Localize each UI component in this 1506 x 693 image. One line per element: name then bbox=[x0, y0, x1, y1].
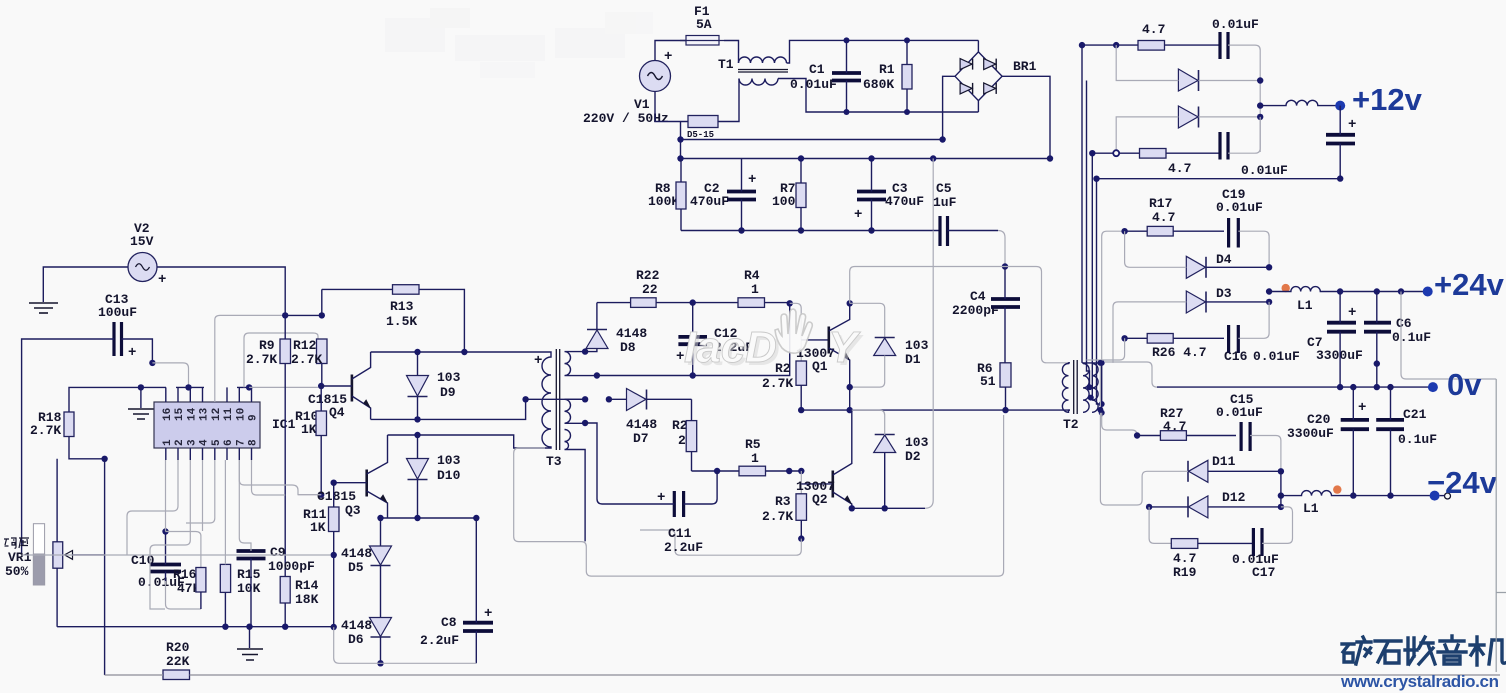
R27 rail riser bbox=[1102, 413, 1137, 436]
svg-text:6: 6 bbox=[223, 439, 235, 446]
svg-text:T2: T2 bbox=[1063, 417, 1079, 432]
svg-text:Q2: Q2 bbox=[812, 492, 828, 507]
svg-text:50%: 50% bbox=[5, 564, 29, 579]
resistor R4 bbox=[738, 268, 765, 307]
svg-text:0.01uF: 0.01uF bbox=[1253, 349, 1300, 364]
capacitor C16 bbox=[1224, 302, 1300, 364]
svg-text:14: 14 bbox=[186, 407, 198, 421]
svg-text:100K: 100K bbox=[648, 194, 679, 209]
junction C13 node bbox=[149, 360, 155, 366]
svg-text:22: 22 bbox=[642, 282, 658, 297]
svg-text:1: 1 bbox=[162, 439, 174, 446]
junction pin14 bbox=[185, 384, 191, 390]
capacitor C8 bbox=[420, 518, 493, 663]
ground row above IC bbox=[95, 386, 166, 388]
primary return row y410 bbox=[801, 409, 1005, 411]
ground (V2) bbox=[29, 303, 58, 313]
capacitor C2 bbox=[690, 159, 756, 234]
svg-text:R17: R17 bbox=[1149, 196, 1172, 211]
junction inductor node bbox=[1257, 102, 1263, 108]
resistor R6 bbox=[977, 361, 1011, 410]
svg-text:R12: R12 bbox=[293, 338, 317, 353]
+12 return rail bbox=[1097, 178, 1341, 180]
svg-text:103: 103 bbox=[437, 370, 461, 385]
junction Q1 collector bbox=[847, 300, 853, 306]
svg-text:13: 13 bbox=[199, 407, 211, 421]
svg-text:D3: D3 bbox=[1216, 286, 1232, 301]
junction R1 top bbox=[904, 37, 910, 43]
resistor R11 bbox=[303, 483, 339, 627]
pot slider graphic bbox=[33, 524, 44, 585]
gray wire pins9-10 to Q4 base node bbox=[249, 386, 321, 387]
resistor R22 bbox=[631, 268, 660, 307]
junction C11 riser bbox=[714, 468, 720, 474]
junction +24 rail bbox=[1398, 288, 1404, 294]
junction C12 top bbox=[690, 299, 696, 305]
svg-text:C17: C17 bbox=[1252, 565, 1275, 580]
wire V2 right to R9/R12 rail bbox=[157, 267, 285, 315]
capacitor C1 bbox=[790, 40, 861, 112]
gray pin web drops bbox=[165, 460, 167, 532]
svg-text:1: 1 bbox=[751, 282, 759, 297]
inductor (+12) bbox=[1260, 100, 1340, 105]
resistor R16 bbox=[173, 567, 206, 609]
Q4 collector row bbox=[371, 351, 545, 353]
junction R9 top bbox=[282, 312, 288, 318]
resistor R3 bbox=[762, 494, 807, 539]
orange node bbox=[1282, 284, 1290, 292]
svg-text:C8: C8 bbox=[441, 615, 457, 630]
svg-text:L1: L1 bbox=[1297, 298, 1313, 313]
gray wire C10 node to R16 bbox=[166, 532, 201, 568]
junction R1 bottom bbox=[904, 109, 910, 115]
top rail bbox=[1082, 44, 1220, 46]
svg-text:4148: 4148 bbox=[616, 326, 647, 341]
junction Q1/Q2 row bbox=[847, 407, 853, 413]
gray wire C13 node to pin14 bbox=[152, 363, 188, 388]
capacitor C5 bbox=[933, 181, 1005, 267]
resistor R13 bbox=[322, 285, 465, 352]
pot VR1 bbox=[4, 459, 105, 627]
junction return rail left bbox=[1093, 176, 1099, 182]
svg-text:9: 9 bbox=[248, 414, 260, 421]
frame corner lines bbox=[1496, 379, 1506, 672]
glyph shi bbox=[1375, 641, 1401, 663]
junction return rail right bbox=[1337, 175, 1343, 181]
svg-text:103: 103 bbox=[905, 435, 929, 450]
svg-text:C21: C21 bbox=[1403, 407, 1427, 422]
capacitor C19 bbox=[1229, 218, 1270, 267]
junction R14 bottom bbox=[282, 624, 288, 630]
junction R15 bottom bbox=[222, 624, 228, 630]
junction D10 top bbox=[414, 432, 420, 438]
capacitor C7 bbox=[1307, 292, 1363, 388]
junction R26 left bbox=[1121, 335, 1127, 341]
svg-text:C6: C6 bbox=[1396, 316, 1412, 331]
wire Q2 base bbox=[801, 483, 833, 485]
svg-text:4: 4 bbox=[199, 439, 211, 446]
svg-text:D8: D8 bbox=[620, 340, 636, 355]
svg-text:0v: 0v bbox=[1447, 367, 1482, 402]
svg-text:1K: 1K bbox=[310, 520, 326, 535]
resistor R15 bbox=[220, 460, 260, 627]
transistor Q3 bbox=[317, 435, 388, 518]
svg-text:220V / 50Hz: 220V / 50Hz bbox=[583, 111, 669, 126]
junction D10 bottom bbox=[414, 515, 420, 521]
junction T3 mid tap bbox=[522, 396, 528, 402]
svg-text:Q4: Q4 bbox=[329, 405, 345, 420]
gray pin3 drop bbox=[150, 460, 190, 609]
svg-text:0.01uF: 0.01uF bbox=[1212, 17, 1259, 32]
wire C13 right to pins 13-15 node bbox=[122, 339, 153, 363]
junction R11 col y555 bbox=[331, 552, 337, 558]
junction top rail bbox=[1079, 42, 1085, 48]
junction C6 mid bbox=[1374, 360, 1380, 366]
junction bottom rail bbox=[1089, 150, 1095, 156]
negative row under filters bbox=[681, 230, 940, 232]
junction R3 bottom bbox=[798, 535, 804, 541]
svg-text:2.7K: 2.7K bbox=[762, 509, 793, 524]
svg-text:D12: D12 bbox=[1222, 490, 1246, 505]
junction R13 drop bbox=[461, 349, 467, 355]
svg-text:R20: R20 bbox=[166, 640, 190, 655]
capacitor C3 bbox=[854, 155, 924, 233]
junction ground row bbox=[138, 384, 144, 390]
varistor D5-15 bbox=[687, 116, 718, 141]
output cap (+12) bbox=[1326, 106, 1356, 179]
svg-text:R14: R14 bbox=[295, 578, 319, 593]
wire left drop to R20 rail bbox=[104, 459, 106, 675]
vertical bus x1086.5 bbox=[1087, 81, 1090, 388]
fuse F1 bbox=[680, 4, 724, 45]
junction D6 bottom bbox=[377, 660, 383, 666]
capacitor C15 bbox=[1241, 422, 1281, 471]
resistor R5 bbox=[739, 437, 766, 476]
svg-text:0.01uF: 0.01uF bbox=[1216, 200, 1263, 215]
svg-text:18K: 18K bbox=[295, 592, 319, 607]
capacitor C21 bbox=[1376, 387, 1437, 496]
capacitor C13 bbox=[98, 292, 137, 361]
resistor 4.7 bottom bbox=[1140, 149, 1192, 177]
svg-text:+: + bbox=[1358, 400, 1366, 416]
svg-text:5A: 5A bbox=[696, 17, 712, 32]
junction pins 9-10 bbox=[246, 384, 252, 390]
svg-text:11: 11 bbox=[223, 407, 235, 421]
R22 rail top bbox=[597, 302, 790, 304]
Q4 emitter row bbox=[371, 399, 526, 419]
junction D9 bottom bbox=[414, 416, 420, 422]
0v rail left riser bbox=[1105, 362, 1157, 387]
svg-text:D4: D4 bbox=[1216, 252, 1232, 267]
junction tap b bbox=[1088, 395, 1094, 401]
svg-text:−24v: −24v bbox=[1427, 465, 1498, 500]
wire T1 bottom coil to bottom rail bbox=[778, 79, 978, 113]
svg-text:R26 4.7: R26 4.7 bbox=[1152, 345, 1207, 360]
rail B bbox=[681, 158, 1051, 160]
wire fuse to T1 bbox=[724, 41, 739, 64]
svg-text:+: + bbox=[534, 353, 542, 369]
junction tap c bbox=[1099, 401, 1105, 407]
resistor R10 bbox=[295, 386, 327, 495]
svg-text:2.7K: 2.7K bbox=[30, 423, 61, 438]
svg-text:+24v: +24v bbox=[1434, 267, 1505, 302]
inductor L1 (+24) bbox=[1269, 287, 1340, 313]
svg-text:IacD: IacD bbox=[684, 323, 777, 372]
ground (bottom) bbox=[237, 627, 263, 660]
svg-text:D9: D9 bbox=[440, 385, 456, 400]
gray enclosure path T3 bottom loop bbox=[514, 415, 1004, 576]
svg-text:2.2uF: 2.2uF bbox=[664, 540, 703, 555]
svg-text:1: 1 bbox=[751, 451, 759, 466]
svg-text:4148: 4148 bbox=[341, 546, 372, 561]
resistor R12 bbox=[291, 289, 327, 386]
resistor R18 bbox=[30, 387, 105, 458]
gray pin2 drop bbox=[127, 460, 178, 555]
wire D11/D12 node vertical bbox=[1280, 471, 1282, 507]
diode D6 bbox=[341, 618, 392, 664]
junction C1 top bbox=[844, 37, 850, 43]
svg-text:+: + bbox=[1348, 305, 1356, 321]
junction rail A right bbox=[939, 136, 945, 142]
gray wire pin10 riser to R12 top bbox=[244, 333, 318, 387]
diode D12 bbox=[1149, 490, 1281, 518]
voltage source V1 bbox=[583, 49, 672, 126]
junction R4 right bbox=[787, 300, 793, 306]
junction diode upper out bbox=[1257, 77, 1263, 83]
inductor L1 (-24) bbox=[1281, 491, 1353, 516]
svg-text:IC1: IC1 bbox=[272, 417, 296, 432]
wire tap top bbox=[1082, 363, 1102, 417]
svg-text:3300uF: 3300uF bbox=[1287, 426, 1334, 441]
wire C13 left to left rail bbox=[22, 339, 114, 555]
svg-text:R19: R19 bbox=[1173, 565, 1197, 580]
junction rail A left bbox=[677, 136, 683, 142]
bottom right logo 矿石收音机 bbox=[1342, 636, 1505, 665]
svg-text:L1: L1 bbox=[1303, 501, 1319, 516]
diode D10 bbox=[407, 435, 461, 518]
junction L1b in bbox=[1278, 492, 1284, 498]
Q3 emitter row bbox=[380, 517, 476, 519]
pin 12 gray riser to R9 rail bbox=[215, 315, 285, 402]
svg-text:51: 51 bbox=[980, 374, 996, 389]
capacitor C11 bbox=[585, 423, 717, 555]
svg-text:8: 8 bbox=[248, 439, 260, 446]
svg-text:4.7: 4.7 bbox=[1152, 210, 1175, 225]
svg-text:+: + bbox=[1348, 117, 1356, 133]
diode D9 bbox=[407, 352, 461, 419]
junction R5 right dots bbox=[786, 468, 792, 474]
svg-text:100uF: 100uF bbox=[98, 305, 137, 320]
resistor R14 bbox=[280, 577, 318, 627]
wire rail B down to C5 row bbox=[932, 159, 934, 231]
R9/R12 top rail bbox=[285, 314, 322, 316]
svg-text:1000pF: 1000pF bbox=[268, 559, 315, 574]
svg-text:470uF: 470uF bbox=[885, 194, 924, 209]
gray wire collector to V+ node bbox=[850, 267, 1005, 304]
junction C8 riser bbox=[473, 515, 479, 521]
wire D5-15 to T1 bottom coil bbox=[718, 79, 739, 122]
svg-text:D1: D1 bbox=[905, 352, 921, 367]
resistor R8 bbox=[648, 159, 686, 231]
junction C6 top bbox=[1374, 288, 1380, 294]
capacitor C4 bbox=[952, 267, 1020, 363]
glyph kuang bbox=[1342, 637, 1371, 664]
svg-text:R16: R16 bbox=[173, 567, 197, 582]
svg-text:22K: 22K bbox=[166, 654, 190, 669]
diode D2 bbox=[852, 410, 929, 508]
resistor R20 bbox=[163, 640, 190, 680]
bridge rectifier BR1 bbox=[955, 52, 1037, 101]
svg-text:+: + bbox=[484, 606, 492, 622]
junction Q3 base bbox=[331, 480, 337, 486]
vertical bus x1082 bbox=[1081, 45, 1083, 363]
svg-text:680K: 680K bbox=[863, 77, 894, 92]
gray wire +24 to frame bbox=[1401, 292, 1496, 380]
svg-text:D11: D11 bbox=[1212, 454, 1236, 469]
bottom gray link row C8 bbox=[334, 627, 477, 663]
pin 16 stub bbox=[165, 387, 167, 402]
wire V1 bottom to D5-15 bbox=[655, 92, 688, 122]
pins 10-9 tie bbox=[237, 387, 253, 402]
IC op IC1 body bbox=[154, 402, 296, 448]
resistor R9 bbox=[246, 315, 291, 576]
R17 rail bbox=[1102, 231, 1125, 363]
svg-text:470uF: 470uF bbox=[690, 194, 729, 209]
-24 output rail bbox=[1353, 495, 1434, 497]
svg-text:0.01uF: 0.01uF bbox=[1241, 163, 1288, 178]
wire R26 left riser bbox=[1087, 338, 1125, 360]
junction Q2 emitter row bbox=[849, 505, 855, 511]
wire V1 top to fuse bbox=[655, 41, 686, 61]
T3 mid tap wire bbox=[526, 398, 586, 400]
svg-text:R22: R22 bbox=[636, 268, 660, 283]
capacitor C9 bbox=[237, 460, 316, 627]
resistor R19 bbox=[1171, 539, 1253, 580]
wire Q3 emitter down to D5 bbox=[380, 518, 382, 546]
resistor R7 bbox=[772, 155, 806, 233]
svg-text:R1: R1 bbox=[879, 62, 895, 77]
svg-text:4148: 4148 bbox=[626, 417, 657, 432]
svg-text:+: + bbox=[664, 49, 672, 65]
svg-text:2.7K: 2.7K bbox=[291, 352, 322, 367]
capacitor C17 bbox=[1232, 507, 1293, 580]
T2 secondary bbox=[1083, 364, 1098, 413]
svg-text:Q3: Q3 bbox=[345, 503, 361, 518]
svg-text:16: 16 bbox=[162, 408, 174, 421]
diode upper (+12) bbox=[1116, 45, 1260, 91]
svg-text:V1: V1 bbox=[634, 97, 650, 112]
wire Q1 base bbox=[801, 339, 829, 341]
gray pin7 drop bbox=[252, 460, 286, 495]
junction R11 col rail bbox=[331, 624, 337, 630]
diode D5 bbox=[341, 546, 392, 618]
svg-text:D6: D6 bbox=[348, 632, 364, 647]
junction C20 bottom bbox=[1350, 492, 1356, 498]
junction R17 left bbox=[1121, 228, 1127, 234]
junction -24 bus bbox=[1097, 360, 1103, 366]
wire bridge right vertex to rail B bbox=[1002, 76, 1050, 158]
svg-text:1uF: 1uF bbox=[933, 195, 957, 210]
svg-text:2.7K: 2.7K bbox=[762, 376, 793, 391]
center watermark bbox=[684, 323, 864, 375]
+24v output dot bbox=[1423, 287, 1433, 297]
vertical bus x1096.5 bbox=[1097, 179, 1102, 404]
junction L1 in bbox=[1266, 288, 1272, 294]
junction D12 out bbox=[1278, 504, 1284, 510]
junction 0v dots bbox=[1337, 384, 1343, 390]
capacitor 0.01uF top bbox=[1212, 17, 1260, 152]
pins 15-13 tie row bbox=[176, 387, 204, 402]
bottom rail y627 bbox=[57, 626, 334, 628]
svg-text:103: 103 bbox=[437, 453, 461, 468]
svg-text:0.1uF: 0.1uF bbox=[1392, 330, 1431, 345]
svg-text:C9: C9 bbox=[270, 545, 286, 560]
junction D8 bottom row bbox=[594, 372, 600, 378]
svg-text:BR1: BR1 bbox=[1013, 59, 1037, 74]
rail A bbox=[681, 139, 943, 141]
junction sec mid taps bbox=[582, 396, 588, 402]
0v rail bbox=[1157, 386, 1433, 388]
diode D7 bbox=[626, 389, 692, 447]
gray wire collector node to D1 bbox=[850, 303, 885, 338]
junction C4 node bbox=[1002, 263, 1008, 269]
junction R2 bottom bbox=[798, 407, 804, 413]
capacitor C6 bbox=[1364, 292, 1431, 388]
svg-text:+12v: +12v bbox=[1352, 82, 1423, 117]
junction C1 bottom bbox=[844, 109, 850, 115]
wire bridge top stub bbox=[977, 40, 979, 52]
resistor R1 bbox=[863, 40, 912, 112]
junction R6 bottom bbox=[1002, 407, 1008, 413]
R26 rail bbox=[1125, 337, 1224, 339]
Q3 collector row bbox=[388, 435, 546, 448]
svg-text:D5-15: D5-15 bbox=[687, 130, 714, 140]
glyph yin bbox=[1438, 636, 1466, 664]
svg-text:T3: T3 bbox=[546, 454, 562, 469]
svg-text:10K: 10K bbox=[237, 581, 261, 596]
-24v output dot bbox=[1430, 491, 1440, 501]
junction sec top tap bbox=[582, 348, 588, 354]
svg-text:D10: D10 bbox=[437, 468, 461, 483]
svg-text:C1: C1 bbox=[809, 62, 825, 77]
resistor R2 bbox=[762, 361, 807, 410]
junction R10 bottom bbox=[318, 492, 324, 498]
pin 11 stub bbox=[226, 387, 228, 402]
junction left drop node bbox=[101, 456, 107, 462]
svg-text:2: 2 bbox=[174, 439, 186, 446]
wire V2 left to ground bbox=[43, 267, 128, 302]
junction D3 out bbox=[1266, 299, 1272, 305]
svg-text:C11: C11 bbox=[668, 526, 692, 541]
gray pin8 drop to R10 node bbox=[239, 460, 321, 495]
svg-text:R3: R3 bbox=[775, 494, 791, 509]
svg-text:5: 5 bbox=[211, 439, 223, 446]
svg-text:7: 7 bbox=[235, 439, 247, 446]
junction C7 top bbox=[1337, 288, 1343, 294]
gray pin5 drop bbox=[186, 460, 215, 523]
svg-text:1K: 1K bbox=[301, 422, 317, 437]
svg-text:4148: 4148 bbox=[341, 618, 372, 633]
svg-text:D7: D7 bbox=[633, 431, 649, 446]
svg-text:R13: R13 bbox=[390, 299, 414, 314]
junction rail B left bbox=[677, 155, 683, 161]
svg-text:1.5K: 1.5K bbox=[386, 314, 417, 329]
svg-text:R4: R4 bbox=[744, 268, 760, 283]
wire bridge left vertex down to rail A bbox=[943, 76, 955, 139]
capacitor C20 bbox=[1287, 387, 1369, 496]
svg-text:0.01uF: 0.01uF bbox=[1216, 405, 1263, 420]
Q2 emitter row wire bbox=[852, 507, 925, 509]
